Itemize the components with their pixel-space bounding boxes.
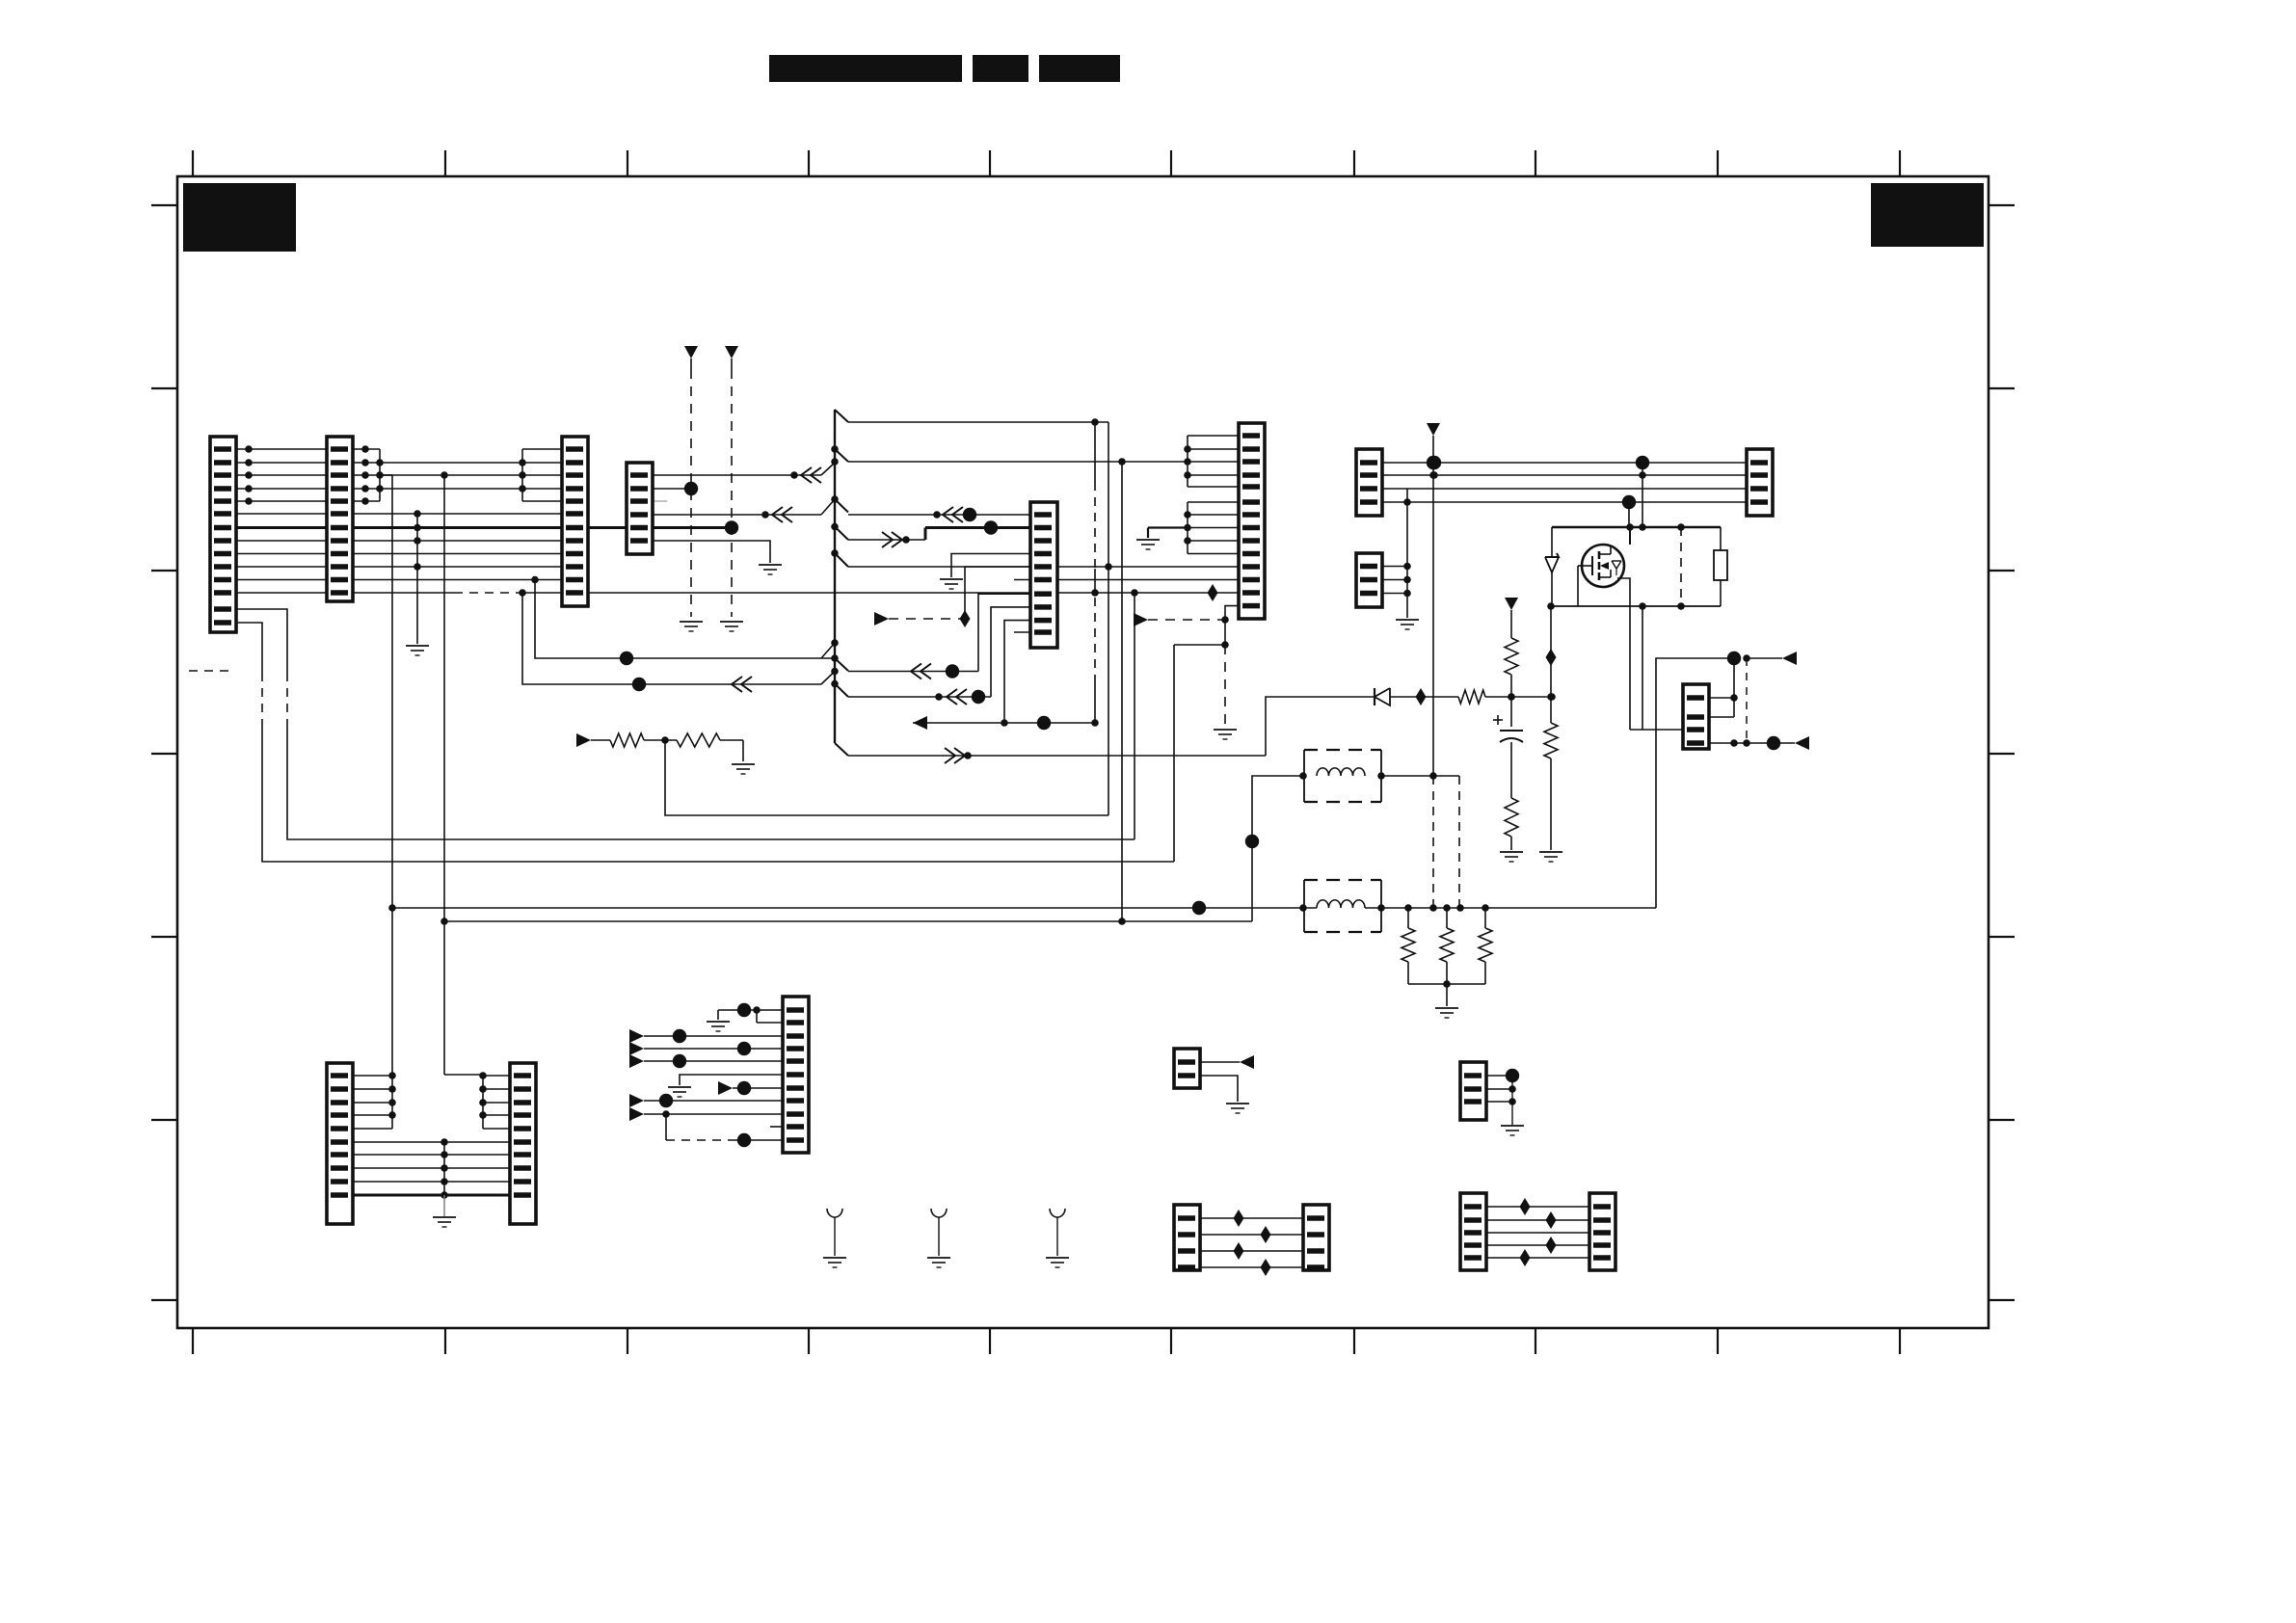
wires H pins to tie — [1382, 566, 1407, 568]
mosfet source lead — [1617, 578, 1630, 730]
connector G — [1356, 449, 1382, 516]
wire F pin14 corner — [1225, 606, 1239, 620]
wire D pin6 to ground — [653, 541, 770, 563]
wire y602 into F pin12 — [1057, 579, 1239, 581]
ground x1568 — [1500, 851, 1523, 853]
wire x1690 drop — [1628, 502, 1630, 527]
wires K2 pins1-5 tie x501 — [444, 1074, 483, 1076]
test point fork x974 — [931, 1209, 947, 1217]
wire L pin2 — [757, 1022, 783, 1024]
tie bracket F pins 1-5 — [1187, 436, 1188, 487]
wire bundle B to C pins 6-12 — [353, 513, 578, 515]
ground under connector B — [406, 645, 429, 647]
wire A pin14 route lower — [262, 726, 1174, 862]
connector P2 — [1589, 1193, 1615, 1270]
wire x1487 vertical — [1432, 436, 1434, 776]
title redaction bar 2 — [973, 55, 1028, 82]
wire inductor1 left drop x1299 — [1252, 776, 1303, 921]
stub E pin10 — [1014, 631, 1030, 633]
connector F — [1239, 423, 1265, 619]
ground D pin6 — [759, 564, 782, 566]
wire L pin8 — [629, 1094, 644, 1107]
wire L pin4 — [629, 1042, 644, 1055]
chevron on y710 — [732, 677, 742, 692]
wire E pin8 drop x1028 — [991, 607, 1030, 697]
dashed arrow into diamond — [874, 612, 889, 625]
wire x1150 vertical — [1108, 422, 1109, 815]
left border dashed stub — [189, 670, 231, 672]
wire y805 right of inductor1 — [1381, 775, 1459, 777]
wire M pin2 ground — [1200, 1076, 1238, 1102]
wires P1-P2 with diamonds — [1486, 1206, 1589, 1208]
wire L pin5 — [629, 1054, 644, 1068]
wire bundle connector A to connector B — [236, 448, 327, 450]
net dot y683 — [620, 652, 633, 665]
connector M — [1174, 1049, 1200, 1088]
wire x1799 tie — [1733, 658, 1735, 717]
wire y507 G to I — [1382, 488, 1407, 490]
wire J pin2 — [1709, 716, 1734, 718]
wire A pin13 route lower — [287, 726, 1135, 839]
wire long vertical x461 — [443, 475, 445, 1075]
mosfet drain lead — [1629, 527, 1631, 545]
bus branch y534 to E pin1 — [848, 514, 1030, 516]
wire y723 diode row — [1266, 697, 1375, 756]
wire L pin11 dashed — [665, 1114, 667, 1140]
ground E pin4 — [940, 578, 963, 580]
supply arrow + dashed drop x717 — [684, 346, 698, 359]
wire x1704 drop — [1642, 463, 1643, 527]
bus join slant y683 — [821, 643, 835, 658]
inductor FB2 dashed box — [1304, 879, 1381, 881]
border zone tick marks top/bottom — [192, 150, 194, 176]
wire thick net A-B-C-D pin7 — [236, 526, 732, 529]
border zone tick marks left/right — [151, 204, 177, 206]
ground F bracket — [1136, 539, 1160, 541]
title redaction bar 1 — [769, 55, 962, 82]
connector B — [327, 437, 353, 601]
connector O1 — [1174, 1205, 1200, 1270]
connector K2 — [510, 1063, 536, 1224]
wire L pin7 — [718, 1081, 733, 1095]
ground x717 — [680, 621, 703, 623]
bus branch y560 jog to E pin2 thick — [848, 539, 925, 541]
wire x1177 vertical — [1134, 593, 1135, 839]
wire D pin4 to bus — [653, 514, 821, 516]
stub L pin10 — [770, 1126, 783, 1128]
connector D — [627, 463, 653, 554]
title redaction bar 3 — [1039, 55, 1120, 82]
supply arrow x1487 — [1427, 423, 1440, 436]
connector H — [1356, 553, 1382, 607]
mosfet top rail — [1552, 526, 1721, 528]
connector K1 — [327, 1063, 353, 1224]
connector J — [1683, 684, 1709, 749]
zener diode Z1 — [1551, 527, 1553, 556]
corner label box top-left — [183, 183, 296, 252]
ground M pin2 — [1226, 1103, 1249, 1104]
wire C pin11 drop x555 — [535, 580, 835, 659]
wire y521 G to I — [1382, 501, 1747, 503]
test point fork x866 — [827, 1209, 842, 1217]
transistor Q1 MOSFET circle — [1582, 545, 1624, 587]
bus branch y588 to F pin11 — [848, 566, 1239, 568]
wire L pin3 — [629, 1029, 644, 1043]
corner label box top-right — [1871, 183, 1984, 247]
bus branch y696 to E — [848, 671, 978, 673]
wire net y942 long horizontal — [392, 907, 1317, 909]
wire L pin9 — [629, 1107, 644, 1121]
resistor R bottom x1568 — [1505, 798, 1518, 837]
wire J pin1 — [1709, 697, 1734, 699]
wire x1609 gate chain — [1550, 606, 1552, 697]
ground after resistor chain — [732, 763, 755, 765]
mosfet bottom rail — [1551, 605, 1721, 607]
inductor FB1 dashed box — [1304, 749, 1381, 751]
ground x1609 — [1539, 851, 1562, 853]
wire y493 G to I — [1382, 474, 1747, 476]
wires O1-O2 with diamonds — [1200, 1217, 1303, 1219]
connector L — [783, 997, 809, 1153]
bus branch y479 to F bracket — [848, 461, 1188, 463]
connector E — [1030, 502, 1057, 648]
wire L pin6 to ground — [680, 1075, 783, 1085]
wire L pin1 — [718, 1009, 783, 1011]
connector P1 — [1460, 1193, 1486, 1270]
wire x1568 mid — [1510, 675, 1512, 727]
wire E pin5 diamond drop x1001 — [965, 567, 1030, 623]
ground fork x1097 — [1046, 1257, 1069, 1259]
wire A pin13 route y871 — [236, 609, 287, 673]
dashed link x1812 — [1746, 658, 1748, 743]
wire x691 drop from resistor node — [665, 740, 1108, 815]
mosfet gate lead — [1578, 565, 1591, 567]
bus branch y438 — [848, 421, 1108, 423]
dashed drop x1515 — [1458, 776, 1460, 908]
connector A — [210, 437, 236, 632]
wire into J pin3 — [1630, 729, 1685, 731]
ground x1271 — [1214, 729, 1237, 731]
wires N pins tie — [1486, 1075, 1512, 1077]
wire y615 net to F pin13 — [578, 592, 1239, 594]
wire D pin5 thick to net dot — [653, 526, 732, 529]
wire A pin14 route y894 — [236, 623, 262, 673]
ground fork x866 — [823, 1257, 846, 1259]
bus bottom branch y784 — [848, 755, 1266, 757]
wire A pin13 dashed part — [286, 673, 288, 726]
test point fork x1097 — [1050, 1209, 1065, 1217]
wire x1568 to ground — [1510, 837, 1512, 850]
wire x1460 H tie — [1406, 489, 1408, 618]
wire net y956 long horizontal — [444, 920, 1252, 922]
wire x1704 drop to J — [1642, 606, 1643, 730]
ground L pin6 — [668, 1086, 691, 1088]
dashed arrow node x1271 — [1134, 613, 1148, 626]
wire L pin2 riser — [756, 1010, 758, 1023]
wire bundle B to C with tie bracket at C pins 1-5 — [380, 462, 522, 464]
bus join slant y710 — [821, 672, 835, 685]
wires K1 pins1-5 to x407 tie — [353, 1075, 392, 1077]
resistor R gate x1609 — [1550, 697, 1552, 723]
wire x1218 vertical — [1173, 645, 1175, 862]
supply arrow x1568 — [1505, 598, 1518, 610]
supply arrow + dashed drop x759 — [725, 346, 738, 359]
connector C — [562, 437, 588, 606]
bus branch y723 to E pin8 — [848, 696, 991, 698]
arrow resistor chain y768 — [576, 733, 591, 747]
wire J pin1 row y683 — [1656, 658, 1734, 908]
connector N — [1460, 1062, 1486, 1120]
wire x1164 long vertical — [1121, 462, 1123, 921]
wire J pin4 row y771 — [1709, 742, 1795, 744]
tie bracket F pins 6-10 with ground — [1187, 502, 1188, 554]
stub E pin6 — [1014, 579, 1030, 581]
resistor R in y723 — [1458, 690, 1485, 704]
wire E pin4 to ground — [951, 554, 1030, 578]
wire y480 G to I — [1382, 462, 1747, 464]
harness bus vertical x866 with branch slants — [834, 410, 836, 743]
ground K bus — [433, 1216, 456, 1218]
ground L pin1 — [707, 1021, 730, 1023]
wire y669 to dashed gnd node — [1174, 644, 1225, 646]
wire gnd collect x433 — [416, 514, 418, 644]
ground resistor network — [1435, 1007, 1458, 1009]
ground fork x974 — [927, 1257, 950, 1259]
wire x1136 vertical — [1094, 422, 1096, 482]
resistor R top x1568 — [1505, 638, 1518, 675]
ground x1460 — [1396, 619, 1419, 621]
stub D pin3 — [653, 500, 667, 502]
wires K1-K2 pins6-10 — [353, 1141, 510, 1143]
ground x759 — [720, 621, 743, 623]
diode D1 — [1375, 688, 1390, 705]
wire D pin2 to NAP net — [653, 488, 691, 490]
resistor R load box — [1720, 527, 1722, 550]
resistor network R-R-R to ground — [1407, 908, 1409, 928]
junction bracket after connector B pins 1-5 — [353, 448, 380, 450]
wire M pin1 arrow — [1200, 1061, 1240, 1063]
wire y750 with left arrow — [913, 722, 1095, 724]
wire D pin1 to bus — [653, 474, 821, 476]
wire long vertical x407 — [380, 474, 392, 476]
wire C pin12 drop x542 — [522, 593, 821, 684]
wire y507 corner to I — [1407, 488, 1747, 490]
net dot y710 — [632, 678, 646, 691]
connector O2 — [1303, 1205, 1329, 1270]
sheet border frame — [177, 176, 1989, 1328]
wire A pin14 dashed part — [261, 673, 263, 726]
mosfet internals — [1591, 556, 1593, 575]
wire E pin7 drop x1015 — [978, 594, 1030, 671]
wire E pin9 drop x1042 — [1004, 621, 1030, 723]
connector I — [1747, 449, 1773, 516]
dashed link x1744 — [1680, 527, 1682, 606]
capacitor C+ x1568 — [1500, 730, 1523, 732]
ground N — [1501, 1125, 1524, 1127]
